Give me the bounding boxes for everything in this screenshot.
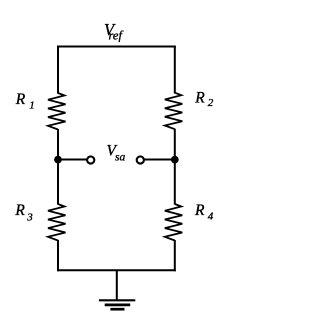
svg-text:R: R [194, 202, 205, 219]
terminal circle right [137, 156, 144, 163]
junction dot left [54, 156, 62, 164]
wire right middle [174, 129, 176, 205]
svg-text:R: R [14, 202, 25, 219]
label R2 [194, 89, 213, 109]
wire right upper [174, 46, 176, 94]
resistor R1 [48, 93, 66, 130]
svg-text:R: R [194, 89, 205, 106]
ground bar 3 [110, 308, 124, 311]
label R1 [15, 91, 35, 112]
resistor R3 [48, 204, 66, 241]
ground bar 2 [105, 304, 131, 307]
terminal circle left [87, 156, 94, 163]
svg-text:R: R [15, 91, 26, 108]
svg-text:1: 1 [29, 99, 35, 111]
svg-text:4: 4 [208, 210, 214, 222]
resistor R4 [165, 204, 183, 241]
svg-text:sa: sa [115, 152, 125, 164]
wire bottom rail [57, 269, 176, 271]
wire left upper [57, 46, 59, 94]
svg-text:2: 2 [208, 97, 214, 109]
ground bar 1 [99, 299, 135, 301]
wire right lower [174, 240, 176, 271]
ground stub [116, 270, 118, 299]
svg-text:3: 3 [26, 212, 33, 224]
wire left middle [57, 129, 59, 205]
wire left lower [57, 240, 59, 271]
wire mid left (to terminal) [58, 159, 87, 161]
node Vref label [104, 20, 123, 42]
resistor R2 [165, 93, 183, 130]
svg-text:ref: ref [109, 28, 124, 42]
wire mid right (from terminal) [144, 159, 175, 161]
wire top (Vref rail) [57, 46, 176, 48]
label R3 [14, 202, 33, 224]
node Vsa label [107, 143, 126, 164]
label R4 [194, 202, 214, 222]
junction dot right [171, 156, 179, 164]
